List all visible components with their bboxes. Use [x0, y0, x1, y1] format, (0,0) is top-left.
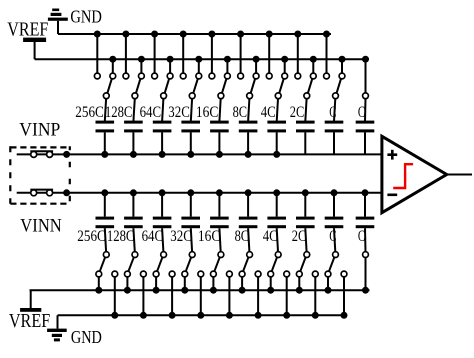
wire VREF drop to top switch 8C	[255, 59, 257, 73]
wire bottom switch 2C to GND rail	[314, 277, 316, 315]
value label 128C (top)	[105, 104, 133, 121]
node - bus junction at 16C (bottom)	[216, 189, 223, 196]
top switch 128C GND contact	[123, 73, 129, 79]
op-amp U1 + input marker	[387, 150, 397, 160]
wire GND rail (bottom)	[58, 314, 348, 316]
top switch 4C VREF contact	[282, 73, 288, 79]
op-amp U1 - input marker	[387, 194, 397, 197]
bottom switch 4C common contact	[275, 252, 281, 258]
svg-text:VINP: VINP	[19, 119, 60, 140]
VREF supply bar (bottom)	[20, 290, 41, 312]
wire GND drop to top switch 32C	[182, 34, 184, 73]
bottom switch 8C common contact	[247, 252, 253, 258]
bottom switch 256C arm	[100, 257, 105, 271]
top switch 32C GND contact	[180, 73, 186, 79]
wire VREF rail (top)	[35, 58, 369, 60]
wire GND drop to top switch 2C	[297, 34, 299, 73]
bottom switch 4C VREF contact	[268, 271, 274, 277]
bottom switch 8C arm	[243, 257, 248, 271]
value label 4C (top)	[261, 104, 276, 121]
node + bus junction at 16C	[216, 151, 223, 158]
svg-text:128C: 128C	[105, 104, 133, 121]
wire - bus (VINN to comparator -)	[17, 192, 382, 194]
svg-text:4C: 4C	[263, 228, 278, 245]
switch S-VINP arm	[30, 150, 53, 152]
wire GND drop to top switch 4C	[268, 34, 270, 73]
node VREF-rail junction, top switch 128C	[138, 56, 145, 63]
label VREF (bottom)	[9, 310, 50, 332]
wire bottom switch 64C to VREF rail	[155, 277, 157, 290]
VREF supply bar (top)	[23, 38, 46, 60]
wire VREF drop to top switch 32C	[198, 59, 200, 73]
wire 8C bottom plate to + bus	[247, 132, 249, 154]
svg-text:2C: 2C	[290, 104, 305, 121]
svg-text:C: C	[358, 228, 365, 245]
bottom switch 16C GND contact	[227, 271, 233, 277]
node - bus junction at C (bottom)	[362, 189, 369, 196]
wire bottom switch 16C to GND rail	[228, 277, 230, 315]
value label 16C (top)	[196, 104, 219, 121]
value label 8C (top)	[233, 104, 248, 121]
node GND-rail junction, bottom switch 2C	[312, 312, 319, 319]
wire bottom switch 16C to VREF rail	[212, 277, 214, 290]
top switch 8C VREF contact	[253, 73, 259, 79]
wire bottom switch 8C to VREF rail	[241, 277, 243, 290]
wire bottom cap 16C to switch	[219, 228, 220, 252]
bottom switch 8C VREF contact	[239, 271, 245, 277]
top switch 256C common contact	[103, 93, 109, 99]
top switch 32C arm	[193, 79, 198, 93]
top switch 128C common contact	[132, 93, 138, 99]
wire - bus to 128C (bottom)	[132, 193, 134, 217]
bottom switch 128C common contact	[132, 252, 138, 258]
capacitor 128C (bottom array)	[124, 217, 143, 229]
top cap C contact	[363, 93, 369, 99]
svg-text:256C: 256C	[77, 228, 106, 245]
value label C (top)	[358, 104, 365, 121]
svg-text:C: C	[358, 104, 365, 121]
wire C bottom plate to + bus	[364, 132, 366, 154]
node VREF-rail junction, top cap C (dummy)	[362, 56, 369, 63]
node + bus junction at box edge	[63, 151, 70, 158]
top switch 4C common contact	[275, 93, 281, 99]
wire bottom switch 32C to GND rail	[200, 277, 202, 315]
wire top switch 32C to capacitor	[191, 99, 192, 122]
top switch 16C GND contact	[209, 73, 215, 79]
switch S-VINP contact b	[47, 151, 53, 157]
wire bottom switch C to VREF rail	[327, 277, 329, 290]
capacitor 256C (bottom array)	[96, 217, 115, 229]
wire C bottom plate to + bus	[333, 132, 335, 154]
wire VREF drop to top cap C	[365, 59, 367, 93]
svg-text:GND: GND	[70, 7, 102, 27]
node GND-rail junction, top switch 64C	[151, 31, 158, 38]
bottom switch 256C GND contact	[112, 271, 118, 277]
wire VREF drop to top switch 16C	[226, 59, 228, 73]
bottom switch 128C arm	[128, 257, 133, 271]
wire top switch 128C to capacitor	[133, 99, 134, 122]
node GND-rail junction, top switch 256C	[94, 31, 101, 38]
wire 64C bottom plate to + bus	[161, 132, 163, 154]
wire VREF drop to top switch 2C	[312, 59, 314, 73]
wire 256C bottom plate to + bus	[104, 132, 106, 154]
bottom switch 16C common contact	[218, 252, 224, 258]
top switch 16C VREF contact	[225, 73, 231, 79]
bottom switch C arm	[329, 257, 334, 271]
top switch 64C arm	[165, 79, 169, 93]
top switch C VREF contact	[339, 73, 345, 79]
value label 16C (bottom)	[198, 228, 221, 245]
node GND-rail junction, bottom switch 16C	[226, 312, 233, 319]
node - bus junction at 256C (bottom)	[101, 189, 108, 196]
node VREF-rail junction, top switch 8C	[253, 56, 260, 63]
node VREF-rail junction, top switch 32C	[195, 56, 202, 63]
wire GND drop to top switch 16C	[211, 34, 213, 73]
bottom switch 64C arm	[157, 257, 162, 271]
label VINN	[20, 216, 62, 237]
value label 32C (top)	[168, 104, 190, 121]
label GND (bottom)	[71, 327, 102, 347]
node + bus junction at 128C	[130, 151, 137, 158]
node VREF-rail junction, bottom switch 8C	[239, 287, 246, 294]
svg-text:VREF: VREF	[9, 310, 50, 332]
wire bottom switch 256C to GND rail	[114, 277, 116, 315]
wire bottom switch 4C to VREF rail	[270, 277, 272, 290]
wire + bus (VINP to comparator +)	[17, 153, 382, 155]
top switch 16C arm	[222, 79, 226, 93]
node VREF-rail junction, bottom switch 64C	[153, 287, 160, 294]
bottom switch 16C arm	[214, 257, 219, 271]
capacitor 4C (top array)	[267, 121, 286, 133]
node VREF-rail junction, top switch 256C	[109, 56, 116, 63]
bottom switch 256C VREF contact	[96, 271, 102, 277]
node - bus junction at 64C (bottom)	[159, 189, 166, 196]
node VREF-rail junction, bottom switch 4C	[267, 287, 274, 294]
svg-text:16C: 16C	[198, 228, 221, 245]
wire bottom cap 64C to switch	[162, 228, 163, 252]
capacitor 8C (top array)	[239, 121, 258, 133]
top switch 8C GND contact	[238, 73, 244, 79]
wire bottom cap C to switch	[334, 228, 335, 252]
capacitor 64C (bottom array)	[153, 217, 172, 229]
bottom switch 2C VREF contact	[296, 271, 302, 277]
bottom switch 2C GND contact	[312, 271, 318, 277]
label VREF (top)	[7, 19, 48, 41]
bottom switch 32C VREF contact	[182, 271, 188, 277]
bottom switch 16C VREF contact	[211, 271, 217, 277]
wire - bus to 4C (bottom)	[276, 193, 278, 217]
value label 256C (top)	[75, 104, 104, 121]
node GND-rail junction, bottom switch 128C	[140, 312, 147, 319]
svg-text:8C: 8C	[233, 104, 248, 121]
wire bottom cap 4C to switch	[277, 228, 278, 252]
top switch 8C arm	[251, 79, 255, 93]
value label 32C (bottom)	[170, 228, 192, 245]
node - bus junction at C (bottom)	[331, 189, 338, 196]
wire GND drop to top switch 256C	[96, 34, 98, 73]
label GND (top)	[70, 7, 102, 27]
bottom switch 4C GND contact	[284, 271, 290, 277]
svg-text:GND: GND	[71, 327, 102, 347]
node GND-rail junction, top switch 32C	[180, 31, 187, 38]
wire - bus to 256C (bottom)	[104, 193, 106, 217]
node VREF-rail junction, bottom switch 32C	[181, 287, 188, 294]
wire - bus to 8C (bottom)	[247, 193, 249, 217]
capacitor C (top array)	[356, 121, 375, 133]
wire bottom switch 32C to VREF rail	[184, 277, 186, 290]
svg-text:VINN: VINN	[20, 216, 62, 237]
svg-text:16C: 16C	[196, 104, 219, 121]
svg-text:8C: 8C	[235, 228, 250, 245]
wire bottom switch 128C to VREF rail	[126, 277, 128, 290]
top switch 256C arm	[107, 79, 111, 93]
wire GND drop to top switch 64C	[154, 34, 156, 73]
bottom cap C contact	[363, 252, 369, 258]
node - bus junction at box edge	[63, 189, 70, 196]
node VREF-rail junction, top switch 16C	[224, 56, 231, 63]
bottom switch C GND contact	[341, 271, 347, 277]
bottom switch 32C arm	[186, 257, 191, 271]
svg-text:32C: 32C	[170, 228, 192, 245]
bottom switch 2C arm	[300, 257, 305, 271]
capacitor C (bottom array)	[325, 217, 344, 229]
node GND-rail junction, bottom switch C	[341, 312, 348, 319]
top switch 2C common contact	[304, 93, 310, 99]
wire contact to top cap C	[364, 99, 367, 122]
svg-text:256C: 256C	[75, 104, 104, 121]
node GND-rail junction, bottom switch 8C	[255, 312, 262, 319]
node VREF-rail junction, bottom cap C	[362, 287, 369, 294]
top switch 64C common contact	[161, 93, 167, 99]
wire VREF drop to top switch 4C	[284, 59, 286, 73]
wire bottom cap 128C to switch	[133, 228, 134, 252]
capacitor C (bottom array)	[356, 217, 375, 229]
wire bottom cap 256C to switch	[105, 228, 106, 252]
wire bottom switch 64C to GND rail	[171, 277, 173, 315]
op-amp U1 step-response glyph	[393, 164, 413, 188]
wire - bus to 32C (bottom)	[190, 193, 192, 217]
bottom switch 2C common contact	[304, 252, 310, 258]
node VREF-rail junction, top switch C	[339, 56, 346, 63]
op-amp U1 (comparator)	[382, 136, 447, 212]
bottom switch 8C GND contact	[255, 271, 261, 277]
svg-text:4C: 4C	[261, 104, 276, 121]
wire - bus to C (bottom)	[364, 193, 366, 217]
wire bottom switch 8C to GND rail	[257, 277, 259, 315]
top switch 4C GND contact	[266, 73, 272, 79]
node VREF-rail junction, top switch 64C	[167, 56, 174, 63]
wire VREF drop to top switch C	[341, 59, 343, 73]
node VREF-rail junction, bottom switch 256C	[95, 287, 102, 294]
node GND-rail junction, bottom switch 32C	[197, 312, 204, 319]
capacitor 128C (top array)	[124, 121, 143, 133]
wire contact to VREF rail (bottom)	[365, 257, 367, 290]
top switch 32C common contact	[189, 93, 195, 99]
top switch C arm	[337, 79, 341, 93]
top switch 32C VREF contact	[196, 73, 202, 79]
node GND-rail junction, top switch 2C	[294, 31, 301, 38]
svg-text:2C: 2C	[292, 228, 307, 245]
top switch 128C VREF contact	[139, 73, 145, 79]
node - bus junction at 8C (bottom)	[245, 189, 252, 196]
capacitor C (top array)	[325, 121, 344, 133]
switch S-VINN contact b	[47, 190, 53, 196]
ground (top)	[48, 9, 68, 35]
node VREF-rail junction, bottom switch 128C	[124, 287, 131, 294]
bottom switch 32C common contact	[189, 252, 195, 258]
wire GND drop to top switch 8C	[240, 34, 242, 73]
top switch C GND contact	[324, 73, 330, 79]
node GND-rail junction, top switch 8C	[237, 31, 244, 38]
capacitor 2C (top array)	[296, 121, 315, 133]
svg-text:VREF: VREF	[7, 19, 48, 41]
wire bottom switch C to GND rail	[343, 277, 345, 315]
node + bus junction at 8C	[245, 151, 252, 158]
bottom switch 256C common contact	[103, 252, 109, 258]
svg-text:64C: 64C	[140, 104, 162, 121]
switch S-VINP contact a	[31, 151, 37, 157]
wire VREF drop to top switch 128C	[140, 59, 142, 73]
wire bottom cap 32C to switch	[191, 228, 192, 252]
node GND-rail junction, bottom switch 256C	[111, 312, 118, 319]
node GND-rail junction, bottom switch 64C	[169, 312, 176, 319]
value label 2C (top)	[290, 104, 305, 121]
node GND-rail junction, top switch 16C	[208, 31, 215, 38]
node + bus junction at 32C	[187, 151, 194, 158]
top switch 2C arm	[308, 79, 312, 93]
capacitor 32C (bottom array)	[181, 217, 200, 229]
value label C (bottom)	[329, 228, 336, 245]
wire bottom cap C to contact	[364, 228, 367, 252]
wire comparator output	[447, 174, 472, 176]
node VREF-rail junction, bottom switch 16C	[210, 287, 217, 294]
node + bus junction at 256C	[101, 151, 108, 158]
top switch 256C VREF contact	[110, 73, 116, 79]
node - bus junction at 32C (bottom)	[187, 189, 194, 196]
top switch 64C VREF contact	[167, 73, 173, 79]
bottom switch 128C VREF contact	[125, 271, 131, 277]
bottom switch C VREF contact	[325, 271, 331, 277]
node VREF-rail junction, bottom switch C	[325, 287, 332, 294]
node - bus junction at 128C (bottom)	[130, 189, 137, 196]
top switch 128C arm	[136, 79, 140, 93]
value label 4C (bottom)	[263, 228, 278, 245]
node - bus junction at 2C (bottom)	[302, 189, 309, 196]
input sampling switch box (dashed)	[10, 146, 70, 203]
label VINP	[19, 119, 60, 140]
capacitor 16C (bottom array)	[210, 217, 229, 229]
wire top switch 8C to capacitor	[248, 99, 249, 122]
capacitor 256C (top array)	[96, 121, 115, 133]
top switch 256C GND contact	[94, 73, 100, 79]
wire top switch 4C to capacitor	[277, 99, 278, 122]
value label 2C (bottom)	[292, 228, 307, 245]
wire top switch 256C to capacitor	[105, 99, 106, 122]
switch S-VINN arm	[30, 189, 53, 191]
wire VREF rail (bottom)	[30, 289, 370, 291]
wire 16C bottom plate to + bus	[218, 132, 220, 154]
node VREF-rail junction, bottom switch 2C	[296, 287, 303, 294]
top switch 4C arm	[279, 79, 283, 93]
bottom switch 4C arm	[272, 257, 277, 271]
value label 8C (bottom)	[235, 228, 250, 245]
node GND-rail junction, top switch 4C	[266, 31, 273, 38]
wire GND drop to top switch 128C	[125, 34, 127, 73]
wire VREF drop to top switch 256C	[112, 59, 114, 73]
top switch C common contact	[333, 93, 339, 99]
bottom switch 32C GND contact	[198, 271, 204, 277]
top switch 8C common contact	[247, 93, 253, 99]
top switch 64C GND contact	[152, 73, 158, 79]
wire top switch 2C to capacitor	[305, 99, 306, 122]
svg-text:128C: 128C	[107, 228, 135, 245]
capacitor 32C (top array)	[181, 121, 200, 133]
capacitor 4C (bottom array)	[267, 217, 286, 229]
wire VREF drop to top switch 64C	[169, 59, 171, 73]
bottom switch 64C common contact	[161, 252, 167, 258]
bottom switch C common contact	[333, 252, 339, 258]
value label 128C (bottom)	[107, 228, 135, 245]
bottom switch 64C GND contact	[169, 271, 175, 277]
wire 128C bottom plate to + bus	[132, 132, 134, 154]
bottom switch 64C VREF contact	[153, 271, 159, 277]
capacitor 64C (top array)	[153, 121, 172, 133]
node GND-rail junction, bottom switch 4C	[283, 312, 290, 319]
top switch 2C VREF contact	[310, 73, 316, 79]
svg-text:64C: 64C	[142, 228, 164, 245]
node VREF-rail junction, top switch 2C	[310, 56, 317, 63]
capacitor 16C (top array)	[210, 121, 229, 133]
value label 256C (bottom)	[77, 228, 106, 245]
node VREF-rail junction, top switch 4C	[281, 56, 288, 63]
switch S-VINN contact a	[31, 190, 37, 196]
capacitor 2C (bottom array)	[296, 217, 315, 229]
wire bottom switch 128C to GND rail	[142, 277, 144, 315]
wire - bus to 2C (bottom)	[304, 193, 306, 217]
wire 32C bottom plate to + bus	[190, 132, 192, 154]
node + bus junction at 4C	[273, 151, 280, 158]
node + bus junction at 64C	[159, 151, 166, 158]
wire top switch 64C to capacitor	[162, 99, 163, 122]
value label C (top)	[329, 104, 336, 121]
wire 2C bottom plate to + bus	[304, 132, 306, 154]
top switch 2C GND contact	[295, 73, 301, 79]
wire top switch 16C to capacitor	[219, 99, 220, 122]
ground (bottom)	[47, 315, 67, 341]
value label 64C (top)	[140, 104, 162, 121]
node GND-rail junction, top switch C	[323, 31, 330, 38]
svg-text:32C: 32C	[168, 104, 190, 121]
node - bus junction at 4C (bottom)	[273, 189, 280, 196]
value label C (bottom)	[358, 228, 365, 245]
wire GND rail (top)	[58, 33, 331, 35]
wire bottom switch 256C to VREF rail	[98, 277, 100, 290]
value label 64C (bottom)	[142, 228, 164, 245]
wire bottom switch 2C to VREF rail	[298, 277, 300, 290]
wire - bus to C (bottom)	[333, 193, 335, 217]
wire GND drop to top switch C	[326, 34, 328, 73]
bottom switch 128C GND contact	[141, 271, 147, 277]
wire bottom cap 8C to switch	[248, 228, 249, 252]
node GND-rail junction, top switch 128C	[122, 31, 129, 38]
top switch 16C common contact	[218, 93, 224, 99]
wire bottom switch 4C to GND rail	[286, 277, 288, 315]
capacitor 8C (bottom array)	[239, 217, 258, 229]
wire - bus to 64C (bottom)	[161, 193, 163, 217]
wire - bus to 16C (bottom)	[218, 193, 220, 217]
svg-text:C: C	[329, 104, 336, 121]
wire top switch C to capacitor	[334, 99, 335, 122]
